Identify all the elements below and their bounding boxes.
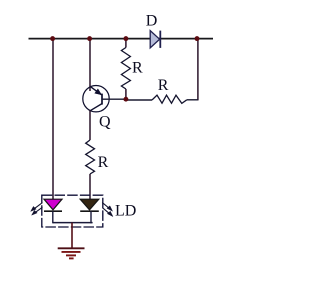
- LD package dashed box: [42, 195, 103, 227]
- junction node 2: [87, 36, 92, 41]
- PD arrow 1: [102, 202, 112, 211]
- LED emission arrow 1: [31, 203, 43, 212]
- wire PD cathode to bus: [90, 211, 92, 223]
- wire base (Q to node): [102, 98, 126, 100]
- LED emission arrow 2: [32, 207, 43, 215]
- wire left vertical (node to LD anode): [52, 39, 54, 200]
- photodiode PD: [80, 199, 99, 211]
- wire top rail: [29, 38, 214, 40]
- wire LED cathode to bus: [52, 211, 54, 223]
- resistor R3 (below Q): [86, 140, 95, 174]
- resistor R2 (horizontal): [126, 99, 152, 101]
- diode D1: [150, 31, 160, 48]
- svg-text:R: R: [158, 77, 169, 94]
- svg-text:LD: LD: [115, 202, 136, 219]
- ground: [58, 223, 85, 259]
- wire collector to photodiode: [89, 174, 91, 200]
- svg-text:D: D: [146, 12, 158, 29]
- wire cathode bus: [53, 222, 93, 224]
- junction node base: [123, 97, 128, 102]
- junction node 4: [195, 36, 200, 41]
- wire emitter vertical (rail to Q): [89, 39, 91, 91]
- wire right vertical (rail to R): [197, 39, 199, 101]
- svg-text:Q: Q: [99, 114, 111, 131]
- resistor R1 (vertical, node3 down): [125, 39, 127, 48]
- junction node 1: [50, 36, 55, 41]
- svg-text:R: R: [132, 60, 143, 77]
- PD arrow 2: [103, 208, 113, 217]
- junction node 3: [123, 36, 128, 41]
- wire collector vertical (Q to R): [89, 111, 91, 141]
- transistor Q1: [83, 86, 109, 112]
- svg-text:R: R: [98, 154, 109, 171]
- LED (laser diode): [44, 199, 62, 211]
